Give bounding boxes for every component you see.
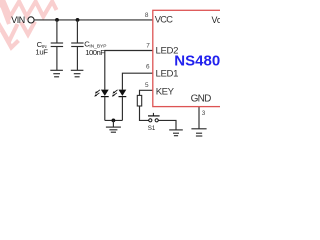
IC U1 NS4808 outline (153, 10, 233, 106)
svg-text:VIN: VIN (11, 15, 25, 25)
svg-text:KEY: KEY (156, 86, 175, 97)
wire GND pin 3 (198, 107, 200, 129)
wire S1 to ground (158, 120, 176, 129)
ground (CIN_BYP) (71, 70, 84, 77)
svg-text:7: 7 (146, 42, 150, 49)
LED D2 (to LED1 pin) (112, 90, 126, 121)
LED D1 (to LED2 pin) (94, 90, 108, 121)
ground (S1) (169, 130, 183, 136)
wire joining LED cathodes (105, 119, 123, 121)
resistor R1 (137, 95, 141, 106)
svg-text:5: 5 (145, 82, 149, 89)
svg-text:NS4808: NS4808 (174, 53, 220, 70)
svg-text:8: 8 (145, 12, 149, 19)
svg-text:3: 3 (202, 110, 206, 117)
wire LED1 pin 6 (122, 73, 152, 89)
svg-text:100nF: 100nF (85, 48, 105, 57)
ground (LEDs) (106, 127, 121, 132)
svg-text:GND: GND (191, 94, 212, 105)
wire VIN to VCC pin 8 (34, 19, 153, 21)
wire to LED ground (112, 120, 114, 127)
terminal VIN (28, 17, 34, 23)
capacitor CIN_BYP (71, 20, 83, 70)
svg-text:VCC: VCC (155, 14, 174, 24)
switch S1 (148, 113, 160, 122)
ground (CIN) (50, 70, 63, 77)
svg-text:LED1: LED1 (156, 69, 179, 80)
wire KEY pin 5 (140, 90, 153, 95)
junction node LED ground (112, 119, 116, 123)
ground (GND pin) (191, 129, 206, 136)
svg-text:S1: S1 (148, 125, 156, 132)
svg-text:1uF: 1uF (35, 48, 48, 57)
junction node at CIN_BYP (76, 18, 80, 22)
wire LED2 pin 7 (105, 51, 153, 90)
junction node at CIN (55, 18, 59, 22)
capacitor CIN (51, 20, 63, 70)
svg-text:6: 6 (146, 64, 150, 71)
svg-text:Vout: Vout (212, 15, 221, 25)
wire R1 to S1 (140, 106, 149, 120)
